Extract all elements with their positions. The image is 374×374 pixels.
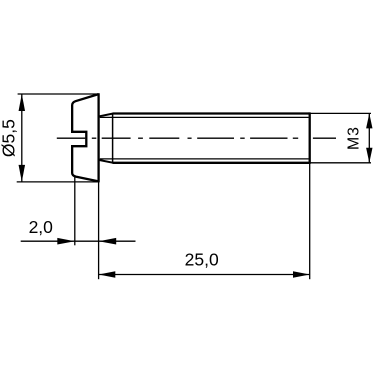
svg-text:Ø5,5: Ø5,5 — [0, 119, 18, 157]
svg-text:25,0: 25,0 — [185, 250, 219, 270]
svg-text:2,0: 2,0 — [29, 217, 54, 237]
svg-text:M3: M3 — [345, 126, 362, 150]
